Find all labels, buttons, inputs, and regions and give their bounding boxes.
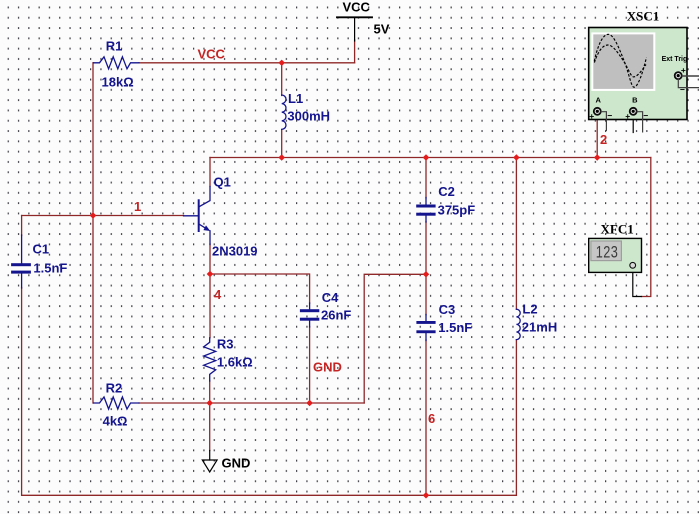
svg-text:C2: C2 <box>438 184 455 199</box>
svg-text:A: A <box>596 95 602 104</box>
svg-text:5V: 5V <box>374 22 390 37</box>
svg-text:VCC: VCC <box>198 47 226 62</box>
svg-text:XSC1: XSC1 <box>627 8 660 23</box>
svg-text:300mH: 300mH <box>287 109 330 124</box>
svg-text:XFC1: XFC1 <box>601 221 634 236</box>
svg-text:C3: C3 <box>439 302 456 317</box>
svg-text:Ext Trig: Ext Trig <box>662 56 688 63</box>
svg-text:123: 123 <box>596 243 618 262</box>
svg-text:B: B <box>632 95 638 104</box>
svg-text:18kΩ: 18kΩ <box>102 75 134 90</box>
svg-text:Q1: Q1 <box>214 175 231 190</box>
svg-text:6: 6 <box>428 411 435 426</box>
svg-text:21mH: 21mH <box>522 320 557 335</box>
svg-text:1: 1 <box>134 199 141 214</box>
svg-text:+: + <box>681 65 686 75</box>
svg-text:4kΩ: 4kΩ <box>103 414 128 429</box>
svg-text:+: + <box>625 111 630 121</box>
svg-text:R2: R2 <box>106 381 123 396</box>
svg-text:R3: R3 <box>217 337 234 352</box>
svg-text:GND: GND <box>313 360 342 375</box>
svg-text:−: − <box>643 111 648 121</box>
svg-text:VCC: VCC <box>343 0 371 15</box>
svg-text:C1: C1 <box>33 242 50 257</box>
svg-text:1.6kΩ: 1.6kΩ <box>217 355 253 370</box>
svg-text:1.5nF: 1.5nF <box>438 320 472 335</box>
svg-text:+: + <box>589 111 594 121</box>
svg-text:26nF: 26nF <box>321 308 351 323</box>
svg-text:R1: R1 <box>106 39 123 54</box>
svg-text:C4: C4 <box>322 290 339 305</box>
svg-text:4: 4 <box>214 287 222 302</box>
svg-text:2N3019: 2N3019 <box>212 244 258 259</box>
svg-text:2: 2 <box>600 132 607 147</box>
svg-text:375pF: 375pF <box>438 203 476 218</box>
svg-text:1.5nF: 1.5nF <box>33 261 67 276</box>
svg-text:−: − <box>680 84 685 94</box>
svg-text:GND: GND <box>222 455 251 470</box>
svg-text:L2: L2 <box>522 302 537 317</box>
svg-text:L1: L1 <box>288 91 303 106</box>
svg-text:−: − <box>607 111 612 121</box>
